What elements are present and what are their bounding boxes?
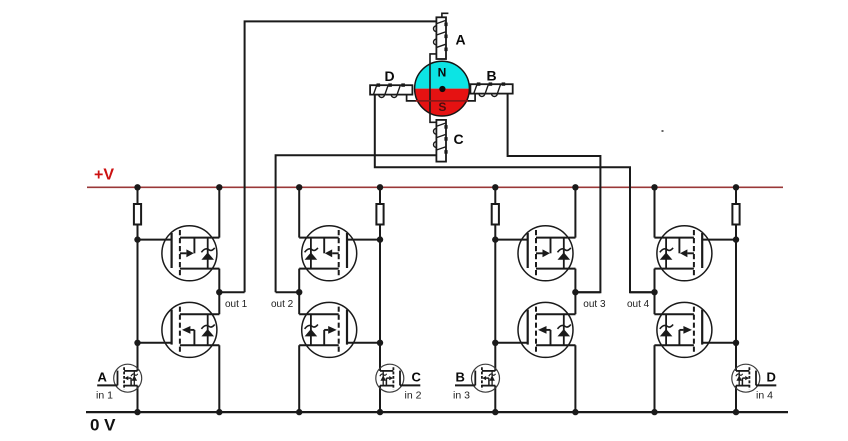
wire source Q8 to 0 V bbox=[654, 345, 656, 412]
junction +V / gate rail column 4 bbox=[733, 184, 739, 190]
wire coil D to out 4 bbox=[375, 94, 655, 292]
input MOSFET Q9 bbox=[97, 364, 142, 392]
wire gate of upper FET column 1 bbox=[138, 239, 172, 241]
input label in 4 bbox=[756, 389, 773, 401]
wire input FET source to 0 V column 2 bbox=[379, 386, 381, 413]
svg-text:out 2: out 2 bbox=[271, 299, 294, 310]
junction +V / drain rail column 3 bbox=[572, 184, 578, 190]
wire gate of lower FET column 3 bbox=[495, 342, 527, 344]
junction gate node upper column 3 bbox=[492, 236, 498, 242]
wire out 3 stub bbox=[575, 291, 600, 293]
wire gate of lower FET column 4 bbox=[702, 342, 736, 344]
stepper motor rotor (magnet) bbox=[415, 61, 470, 116]
input MOSFET Q10 bbox=[376, 364, 421, 392]
coil A winding end stub bbox=[442, 13, 449, 17]
svg-text:in 2: in 2 bbox=[405, 389, 422, 401]
p-channel MOSFET Q1 (high side) bbox=[162, 226, 220, 281]
junction 0 V / source rail column 1 bbox=[216, 409, 222, 415]
svg-text:out 1: out 1 bbox=[225, 299, 248, 310]
svg-text:B: B bbox=[456, 370, 465, 385]
svg-text:out 4: out 4 bbox=[627, 299, 650, 310]
svg-text:C: C bbox=[454, 131, 464, 147]
n-channel MOSFET Q2 (low side) bbox=[162, 302, 220, 357]
junction gate node upper column 2 bbox=[377, 236, 383, 242]
wire gate rail column 3 (resistor to input FET) bbox=[494, 224, 496, 371]
wire gate of upper FET column 4 bbox=[702, 239, 736, 241]
svg-text:S: S bbox=[438, 100, 446, 114]
wire gate rail column 4 (+V to resistor) bbox=[735, 187, 737, 204]
junction 0 V / input rail column 1 bbox=[134, 409, 140, 415]
svg-text:B: B bbox=[487, 68, 497, 84]
coil A (phase winding) bbox=[433, 17, 447, 59]
junction +V / drain rail column 1 bbox=[216, 184, 222, 190]
coil B (phase winding) bbox=[470, 82, 512, 96]
svg-text:in 3: in 3 bbox=[453, 389, 470, 401]
wire source Q7 to drain Q8 (out node) bbox=[654, 269, 656, 315]
junction gate node lower column 3 bbox=[492, 340, 498, 346]
svg-text:D: D bbox=[767, 370, 776, 385]
input label in 2 bbox=[405, 389, 422, 401]
junction +V / gate rail column 2 bbox=[377, 184, 383, 190]
rotor shaft dot bbox=[439, 86, 445, 92]
coil D (phase winding) bbox=[370, 83, 412, 97]
node out 4 bbox=[651, 289, 657, 295]
input label C bbox=[412, 370, 422, 385]
wire source Q1 to drain Q2 (out node) bbox=[218, 269, 220, 315]
0 V label bbox=[90, 416, 116, 435]
wire +V to drain of Q7 bbox=[654, 187, 656, 237]
wire gate of lower FET column 2 bbox=[347, 342, 380, 344]
rotor pole label N bbox=[438, 65, 447, 79]
svg-text:in 1: in 1 bbox=[96, 389, 113, 401]
junction +V / drain rail column 4 bbox=[651, 184, 657, 190]
p-channel MOSFET Q5 (high side) bbox=[518, 226, 576, 281]
svg-text:N: N bbox=[438, 65, 447, 79]
junction +V / gate rail column 3 bbox=[492, 184, 498, 190]
+V supply rail bbox=[87, 186, 783, 188]
wire input FET source to 0 V column 1 bbox=[137, 386, 139, 413]
input MOSFET Q12 bbox=[732, 364, 777, 392]
wire source Q6 to 0 V bbox=[574, 345, 576, 412]
svg-text:D: D bbox=[385, 68, 395, 84]
junction gate node lower column 2 bbox=[377, 340, 383, 346]
input label A bbox=[98, 370, 108, 385]
wire gate of upper FET column 3 bbox=[495, 239, 527, 241]
p-channel MOSFET Q7 (high side) bbox=[654, 226, 712, 281]
resistor R2 bbox=[376, 204, 383, 225]
coil label A bbox=[456, 32, 466, 48]
resistor R1 bbox=[134, 204, 141, 225]
svg-text:+V: +V bbox=[94, 167, 114, 184]
wire source Q3 to drain Q4 (out node) bbox=[298, 269, 300, 315]
wire coil D to coil B (stator frame under rotor) bbox=[407, 94, 476, 101]
out 3 label bbox=[583, 299, 606, 310]
stray ink dot bbox=[662, 130, 664, 132]
ground rail 0 V bbox=[86, 411, 788, 413]
input label in 1 bbox=[96, 389, 113, 401]
svg-text:C: C bbox=[412, 370, 422, 385]
wire input FET source to 0 V column 4 bbox=[735, 386, 737, 413]
wire out 2 stub bbox=[276, 291, 300, 293]
input label B bbox=[456, 370, 465, 385]
rotor pole label S bbox=[438, 100, 446, 114]
svg-text:A: A bbox=[456, 32, 466, 48]
input label D bbox=[767, 370, 776, 385]
junction gate node upper column 1 bbox=[134, 236, 140, 242]
coil C (phase winding) bbox=[434, 120, 448, 162]
junction 0 V / source rail column 4 bbox=[651, 409, 657, 415]
junction +V / drain rail column 2 bbox=[296, 184, 302, 190]
junction 0 V / input rail column 3 bbox=[492, 409, 498, 415]
node out 3 bbox=[572, 289, 578, 295]
wire gate rail column 2 (resistor to input FET) bbox=[379, 224, 381, 371]
wire source Q4 to 0 V bbox=[298, 345, 300, 412]
svg-text:in 4: in 4 bbox=[756, 389, 773, 401]
junction 0 V / source rail column 2 bbox=[296, 409, 302, 415]
junction gate node upper column 4 bbox=[733, 236, 739, 242]
junction gate node lower column 4 bbox=[733, 340, 739, 346]
wire coil A to coil C (across rotor) bbox=[430, 54, 436, 122]
junction 0 V / input rail column 2 bbox=[377, 409, 383, 415]
wire gate of upper FET column 2 bbox=[347, 239, 380, 241]
wire out 2 to coil C bbox=[276, 155, 437, 292]
wire out 4 stub bbox=[630, 291, 655, 293]
input label in 3 bbox=[453, 389, 470, 401]
wire input FET source to 0 V column 3 bbox=[494, 386, 496, 413]
n-channel MOSFET Q8 (low side) bbox=[654, 302, 712, 357]
wire gate rail column 2 (+V to resistor) bbox=[379, 187, 381, 204]
coil label C bbox=[454, 131, 464, 147]
wire out 1 to coil A bbox=[245, 21, 437, 292]
svg-text:out 3: out 3 bbox=[583, 299, 606, 310]
out 1 label bbox=[225, 299, 248, 310]
node out 1 bbox=[216, 289, 222, 295]
node out 2 bbox=[296, 289, 302, 295]
wire gate rail column 3 (+V to resistor) bbox=[494, 187, 496, 204]
wire source Q2 to 0 V bbox=[218, 345, 220, 412]
p-channel MOSFET Q3 (high side) bbox=[299, 226, 357, 281]
wire gate rail column 1 (+V to resistor) bbox=[137, 187, 139, 204]
out 4 label bbox=[627, 299, 650, 310]
out 2 label bbox=[271, 299, 294, 310]
svg-text:0 V: 0 V bbox=[90, 416, 116, 435]
junction gate node lower column 1 bbox=[134, 340, 140, 346]
wire +V to drain of Q1 bbox=[218, 187, 220, 237]
wire coil B to out 3 bbox=[508, 94, 601, 293]
resistor R4 bbox=[732, 204, 739, 225]
wire out 1 stub bbox=[219, 291, 244, 293]
wire gate rail column 4 (resistor to input FET) bbox=[735, 224, 737, 371]
input MOSFET Q11 bbox=[455, 364, 500, 392]
junction 0 V / input rail column 4 bbox=[733, 409, 739, 415]
coil label B bbox=[487, 68, 497, 84]
wire +V to drain of Q3 bbox=[298, 187, 300, 237]
wire +V to drain of Q5 bbox=[574, 187, 576, 237]
+V label bbox=[94, 167, 114, 184]
n-channel MOSFET Q4 (low side) bbox=[299, 302, 357, 357]
wire gate of lower FET column 1 bbox=[138, 342, 172, 344]
wire source Q5 to drain Q6 (out node) bbox=[574, 269, 576, 315]
junction 0 V / source rail column 3 bbox=[572, 409, 578, 415]
n-channel MOSFET Q6 (low side) bbox=[518, 302, 576, 357]
coil label D bbox=[385, 68, 395, 84]
wire gate rail column 1 (resistor to input FET) bbox=[137, 224, 139, 371]
resistor R3 bbox=[492, 204, 499, 225]
junction +V / gate rail column 1 bbox=[134, 184, 140, 190]
svg-text:A: A bbox=[98, 370, 108, 385]
